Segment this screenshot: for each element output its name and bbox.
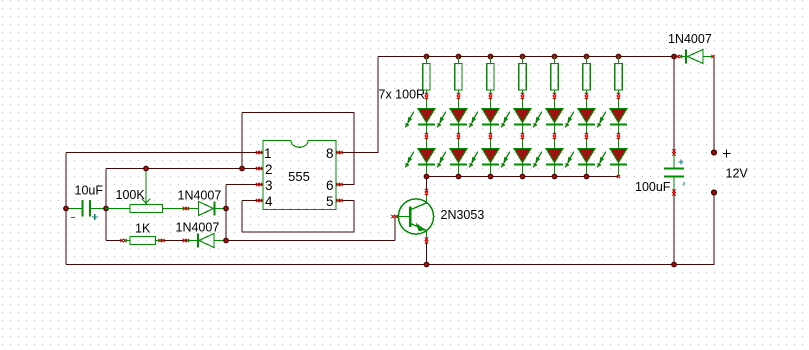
wire pin6 stub: [336, 184, 354, 186]
pin number 4: [265, 194, 273, 209]
junction LED rail col5: [552, 174, 558, 180]
capacitor C1 10uF: [66, 200, 106, 220]
resistor R5 100R: [551, 57, 558, 109]
svg-text:8: 8: [326, 146, 334, 161]
junction LED rail col3: [488, 174, 494, 180]
svg-text:100uF: 100uF: [635, 180, 671, 194]
resistor R1 100R: [423, 57, 430, 109]
pin number 6: [326, 178, 334, 193]
junction C2 to ground rail: [671, 262, 677, 268]
pin mark LED rail end: [617, 175, 620, 178]
label 2N3053: [441, 208, 485, 222]
wire pin4-pin5 bottom link: [242, 231, 354, 233]
trimmer arrow on 100K: [142, 171, 150, 203]
transistor Q1 2N3053: [391, 189, 433, 244]
op-amp/timer U1 555 body: [256, 141, 343, 210]
LED D12 (bottom row): [533, 138, 563, 177]
supply terminal + node: [711, 149, 731, 157]
wire vertical C1 node down to 1K row: [105, 209, 107, 241]
wire pin8 stub: [336, 152, 378, 154]
resistor R8 100K: [106, 205, 198, 213]
junction Q1 collector at LED rail is col1 dot above: [424, 262, 430, 268]
label 100K: [116, 188, 146, 202]
wire pin5 vertical drop: [353, 201, 355, 233]
svg-text:10uF: 10uF: [75, 184, 104, 198]
junction top rail col5: [552, 54, 558, 60]
wire Q1 emitter to ground rail: [426, 241, 428, 265]
wire diode node to Q1 base: [226, 240, 395, 242]
svg-text:1K: 1K: [135, 222, 151, 236]
wire top supply rail: [378, 56, 674, 58]
resistor R6 100R: [583, 57, 590, 109]
LED D6 (top row): [565, 109, 595, 140]
wire pin6 vertical riser: [353, 113, 355, 185]
diode D8 1N4007 (supply): [674, 50, 715, 64]
junction node D3 anode: [223, 238, 229, 244]
wire right supply riser upper: [713, 57, 715, 153]
LED D7 (top row): [597, 109, 627, 140]
wire 1K left lead-in: [106, 240, 123, 242]
wire pin4 vertical drop: [241, 201, 243, 233]
junction node C1 left: [63, 206, 69, 212]
wire pin3 stub: [226, 184, 263, 186]
junction top rail to C2/D8: [671, 54, 677, 60]
LED D14 (bottom row): [597, 138, 627, 177]
pin number 5: [326, 194, 334, 209]
wire bottom ground rail: [66, 264, 714, 266]
wire Q1 base riser: [394, 217, 396, 241]
LED D2 (top row): [437, 109, 467, 140]
svg-text:6: 6: [326, 178, 334, 193]
junction LED rail col6: [584, 174, 590, 180]
wire pin1 net: 555 pin1 to left rail: [66, 152, 263, 154]
junction LED rail col2: [456, 174, 462, 180]
svg-text:7x 100R: 7x 100R: [379, 88, 426, 102]
svg-text:1N4007: 1N4007: [176, 221, 220, 235]
LED D13 (bottom row): [565, 138, 595, 177]
svg-text:4: 4: [265, 194, 273, 209]
LED D5 (top row): [533, 109, 563, 140]
pin number 3: [265, 178, 273, 193]
junction top rail col2: [456, 54, 462, 60]
wire 1K to D3 link: [162, 240, 187, 242]
label 555: [288, 169, 310, 184]
resistor R7 100R: [615, 57, 622, 109]
wire vertical C1 to pin2 net: [105, 169, 107, 209]
wire left vertical rail: [65, 153, 67, 265]
junction top rail col4: [520, 54, 526, 60]
diode D3 1N4007 (bottom row): [187, 234, 226, 248]
capacitor C2 100uF: [664, 149, 684, 195]
wire pin2 vertical riser: [241, 113, 243, 169]
wire C2 bottom feed: [673, 193, 675, 265]
svg-text:1: 1: [264, 146, 272, 161]
supply terminal - node: [711, 189, 717, 195]
LED D1 (top row): [405, 109, 435, 140]
junction node C1 right: [103, 206, 109, 212]
junction top rail col7: [616, 54, 622, 60]
LED D9 (bottom row): [437, 138, 467, 177]
LED D4 (top row): [501, 109, 531, 140]
svg-text:5: 5: [326, 194, 334, 209]
svg-text:2: 2: [265, 162, 273, 177]
wire vertical pin3 to diode nodes: [225, 185, 227, 241]
junction node D2 cathode: [223, 206, 229, 212]
LED D10 (bottom row): [469, 138, 499, 177]
junction LED rail col1: [424, 174, 430, 180]
svg-text:1N4007: 1N4007: [178, 189, 222, 203]
resistor R3 100R: [487, 57, 494, 109]
resistor R4 100R: [519, 57, 526, 109]
svg-text:555: 555: [288, 169, 310, 184]
wire pin5 stub: [336, 200, 354, 202]
pin number 2: [265, 162, 273, 177]
label 1N4007 supply diode: [668, 32, 712, 46]
junction top rail col3: [488, 54, 494, 60]
wire pin4 stub: [242, 200, 263, 202]
LED D3 (top row): [469, 109, 499, 140]
junction LED rail col4: [520, 174, 526, 180]
wire right supply riser lower: [713, 193, 715, 265]
wire D8 anode stub: [712, 56, 714, 58]
svg-text:100K: 100K: [116, 188, 146, 202]
junction node arrow tap: [143, 166, 149, 172]
resistor R9 1K: [120, 237, 189, 245]
wire Q1 collector to LED rail: [426, 177, 428, 193]
label 12V: [726, 167, 749, 181]
svg-text:3: 3: [265, 178, 273, 193]
resistor R2 100R: [455, 57, 462, 109]
label 100uF: [635, 180, 671, 194]
label 10uF: [75, 184, 104, 198]
LED D8 (bottom row): [405, 138, 435, 177]
LED D11 (bottom row): [501, 138, 531, 177]
label 1N4007 top-left diode: [178, 189, 222, 203]
wire pin2-pin6 top link: [242, 112, 354, 114]
junction top rail col1: [424, 54, 430, 60]
diode D2 1N4007 (top row): [199, 202, 227, 216]
label 1N4007 bottom-left diode: [176, 221, 220, 235]
wire C2 top feed: [673, 57, 675, 153]
wire pin2 net horizontal: [106, 168, 263, 170]
label 7x 100R: [379, 88, 426, 102]
wire pin8 riser to top rail: [377, 57, 379, 153]
pin number 8: [326, 146, 334, 161]
pin number 1: [264, 146, 272, 161]
junction node pin2 branch: [239, 166, 245, 172]
svg-text:12V: 12V: [726, 167, 749, 181]
wire LED cathode rail: [427, 176, 619, 178]
label 1K: [135, 222, 151, 236]
svg-text:2N3053: 2N3053: [441, 208, 485, 222]
svg-text:1N4007: 1N4007: [668, 32, 712, 46]
junction top rail col6: [584, 54, 590, 60]
